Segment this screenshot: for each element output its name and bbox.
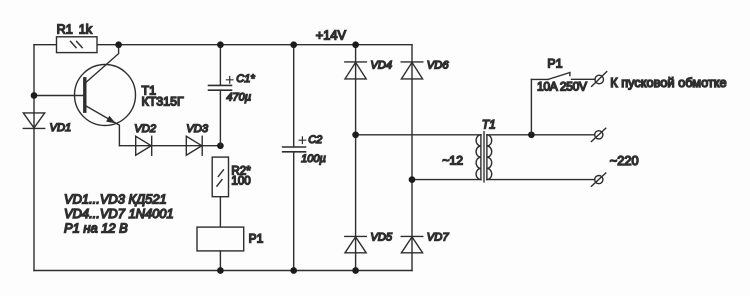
node: collector junction dot on top rail [115,41,122,48]
capacitor C1 [209,45,232,146]
wire: top +14V rail left segment [34,44,57,46]
node: AC right junction dot [409,176,416,183]
wire: emitter line to R2 node [119,145,220,147]
svg-text:~220: ~220 [610,153,639,168]
terminal: mains bottom [591,173,605,186]
wire: bridge right vertical [411,45,413,271]
wire: R2 to relay [219,197,221,227]
node: VD3 / C1 / R2 junction [217,142,224,149]
node: bridge left bottom dot [352,267,359,274]
transformer core [483,131,484,182]
capacitor C2 [283,45,306,271]
svg-text:VD7: VD7 [427,232,450,244]
diode VD6 [401,62,423,79]
diode VD5 [345,236,367,252]
svg-text:VD3: VD3 [186,123,209,135]
diode VD3 [186,136,202,155]
wire: AC lead right (bridge to transformer bottom) [412,179,481,181]
terminal: mains top [591,128,605,141]
svg-text:1k: 1k [79,22,93,36]
svg-text:470µ: 470µ [226,91,251,103]
svg-text:VD4...VD7 1N4001: VD4...VD7 1N4001 [64,206,174,221]
diode VD4 [345,62,367,79]
svg-text:C1*: C1* [236,73,255,85]
transistor base bar [83,79,86,111]
note text block [64,192,174,236]
terminal: to starting winding [592,72,607,87]
diode VD7 [401,236,423,252]
transistor Q1 (T1) circle [75,65,136,126]
svg-text:VD6: VD6 [427,59,450,71]
node: AC left junction dot [352,131,359,138]
svg-text:VD5: VD5 [370,232,393,244]
svg-text:Р1: Р1 [249,232,264,246]
switch P1 contacts [531,73,595,80]
svg-text:C2: C2 [308,134,322,146]
wire: left vertical rail [33,45,35,271]
wire: AC lead left (bridge to transformer top) [356,134,481,136]
wire: bridge left vertical [355,45,357,271]
node: switch branch dot [528,131,535,138]
transistor emitter arrow [106,116,116,124]
diode VD1 [23,113,44,128]
svg-text:~12: ~12 [442,154,463,168]
node: C1 top rail dot [217,41,224,48]
wire: riser to switch P1 [530,79,532,134]
svg-text:Т1: Т1 [482,117,496,131]
svg-text:VD1...VD3 КД521: VD1...VD3 КД521 [64,192,167,207]
resistor R2 [212,157,228,197]
svg-text:Р1 на 12 В: Р1 на 12 В [64,221,128,236]
svg-text:VD4: VD4 [370,59,392,71]
relay coil P1 [197,227,244,251]
wire: top +14V rail right of R1 to bridge corner [97,44,412,46]
node: relay bottom dot [217,267,224,274]
wire: secondary bottom lead to mains terminal [487,179,595,181]
resistor R1 [57,37,98,53]
svg-text:КТ315Г: КТ315Г [142,95,184,109]
svg-text:R1: R1 [57,22,73,36]
diode VD2 [136,136,152,155]
svg-text:+14V: +14V [316,27,347,42]
wire: secondary top lead to mains terminal [487,134,595,136]
node: base junction dot [31,92,38,99]
label C2 value [299,137,306,144]
node: bridge left top dot [352,41,359,48]
svg-text:Р1: Р1 [547,56,562,70]
svg-text:100: 100 [231,175,250,188]
wire: relay to bottom rail [219,251,221,271]
svg-text:10A 250V: 10A 250V [537,79,587,93]
label C1 value [226,77,233,84]
transistor emitter lead [87,106,120,146]
transformer T1 primary winding (12V side) [476,135,481,180]
svg-text:VD1: VD1 [50,122,72,134]
wire: bottom rail [34,270,412,272]
node: C2 top rail dot [290,41,297,48]
transformer T1 secondary winding (220V side) [487,135,492,180]
transistor collector lead [87,45,119,82]
wire: base wire from left rail [34,95,83,97]
node: C2 bottom rail dot [290,267,297,274]
svg-text:К пусковой обмотке: К пусковой обмотке [610,75,726,90]
svg-text:VD2: VD2 [134,123,157,135]
svg-text:100µ: 100µ [301,153,326,165]
